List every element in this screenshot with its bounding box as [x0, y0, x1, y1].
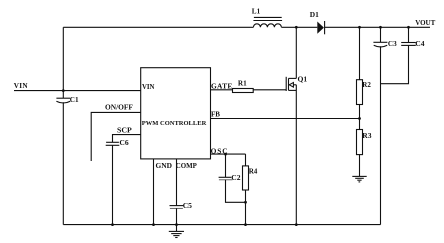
wire output rail to R2: [359, 27, 361, 79]
ground below rail: [169, 231, 184, 237]
svg-text:R3: R3: [362, 131, 371, 140]
wire Q1 drain to switch junction: [295, 27, 297, 78]
svg-text:VIN: VIN: [14, 82, 29, 90]
svg-text:PWM CONTROLLER: PWM CONTROLLER: [142, 120, 207, 127]
node rail junction Q1 source: [295, 223, 298, 226]
svg-text:R2: R2: [362, 81, 371, 89]
wire output rail to C4: [408, 27, 410, 42]
wire C1 bottom to ground rail: [62, 102, 64, 224]
node VIN junction: [62, 89, 65, 92]
svg-text:SCP: SCP: [117, 125, 132, 134]
wire FB pin to divider: [211, 118, 360, 120]
svg-text:GATE: GATE: [211, 81, 233, 90]
wire ground rail: [63, 224, 380, 226]
node C3 top junction: [379, 26, 382, 29]
capacitor C4: [401, 43, 416, 46]
svg-text:FB: FB: [211, 110, 220, 118]
svg-text:R1: R1: [238, 79, 247, 87]
svg-text:L1: L1: [252, 8, 261, 16]
wire C2 bottom over to R4: [226, 180, 246, 203]
wire R4 bottom to ground rail: [245, 190, 247, 225]
wire SCP pin to C6: [113, 135, 141, 143]
wire top rail left segment: [63, 26, 253, 28]
wire R1 to Q1 gate: [253, 89, 286, 91]
wire COMP pin to C5: [176, 159, 178, 206]
capacitor C3: [373, 42, 387, 47]
wire D1 cathode to VOUT: [325, 26, 430, 28]
node rail junction C6: [111, 223, 114, 226]
transistor Q1: [286, 77, 296, 91]
svg-text:GND: GND: [156, 161, 172, 170]
svg-text:C4: C4: [415, 39, 424, 48]
wire C5 bottom through rail to ground: [176, 208, 178, 231]
ground below R3: [352, 176, 366, 182]
capacitor C1: [56, 98, 70, 103]
wire OSC junction down to C2: [225, 154, 227, 177]
svg-text:C5: C5: [183, 201, 192, 210]
svg-text:C6: C6: [119, 138, 128, 147]
svg-text:Q1: Q1: [298, 74, 308, 83]
wire L1 to D1 anode: [281, 26, 317, 28]
node C2-R4 junction: [244, 201, 247, 204]
svg-text:D1: D1: [310, 10, 319, 19]
wire R2 bottom to R3 top: [359, 105, 361, 130]
capacitor C2: [219, 177, 233, 180]
svg-text:R4: R4: [249, 167, 258, 175]
capacitor C5: [170, 206, 184, 209]
inductor L1: [253, 17, 282, 27]
wire output rail to C3: [380, 27, 382, 42]
svg-text:C2: C2: [231, 173, 240, 182]
svg-text:C1: C1: [70, 96, 79, 104]
wire VIN input to controller: [14, 90, 141, 92]
resistor R4: [243, 166, 249, 190]
wire GATE pin to R1: [211, 89, 233, 91]
wire ON/OFF pin stub: [91, 112, 141, 161]
wire C6 bottom to ground rail: [112, 145, 114, 224]
svg-text:C3: C3: [388, 40, 397, 48]
capacitor C6: [106, 142, 120, 145]
node switch junction: [295, 26, 298, 29]
svg-text:COMP: COMP: [176, 163, 198, 170]
resistor R1: [233, 89, 254, 93]
node FB junction: [358, 117, 361, 120]
node rail junction GND: [152, 223, 155, 226]
wire R3 bottom to ground: [359, 155, 361, 177]
svg-text:ON/OFF: ON/OFF: [105, 103, 133, 112]
node OSC junction: [224, 153, 227, 156]
resistor R2: [357, 80, 363, 105]
svg-text:VIN: VIN: [142, 84, 155, 91]
wire left vertical from top rail to C1: [62, 27, 64, 98]
svg-text:VOUT: VOUT: [415, 19, 435, 27]
wire OSC to R4 top: [245, 154, 247, 166]
wire OSC pin to R4: [211, 153, 246, 155]
node rail junction R4: [244, 223, 247, 226]
wire C4 bottom over to C3 line: [381, 45, 409, 83]
diode D1: [317, 21, 324, 34]
node R2 top junction: [358, 26, 361, 29]
node rail junction C5: [175, 223, 178, 226]
resistor R3: [357, 130, 363, 155]
wire C3 bottom to ground rail: [380, 46, 382, 224]
wire Q1 source to ground rail: [295, 85, 297, 225]
wire GND pin to ground rail: [153, 159, 155, 225]
node C4 top junction: [407, 26, 410, 29]
op-amp U1 PWM controller box: [141, 68, 211, 159]
